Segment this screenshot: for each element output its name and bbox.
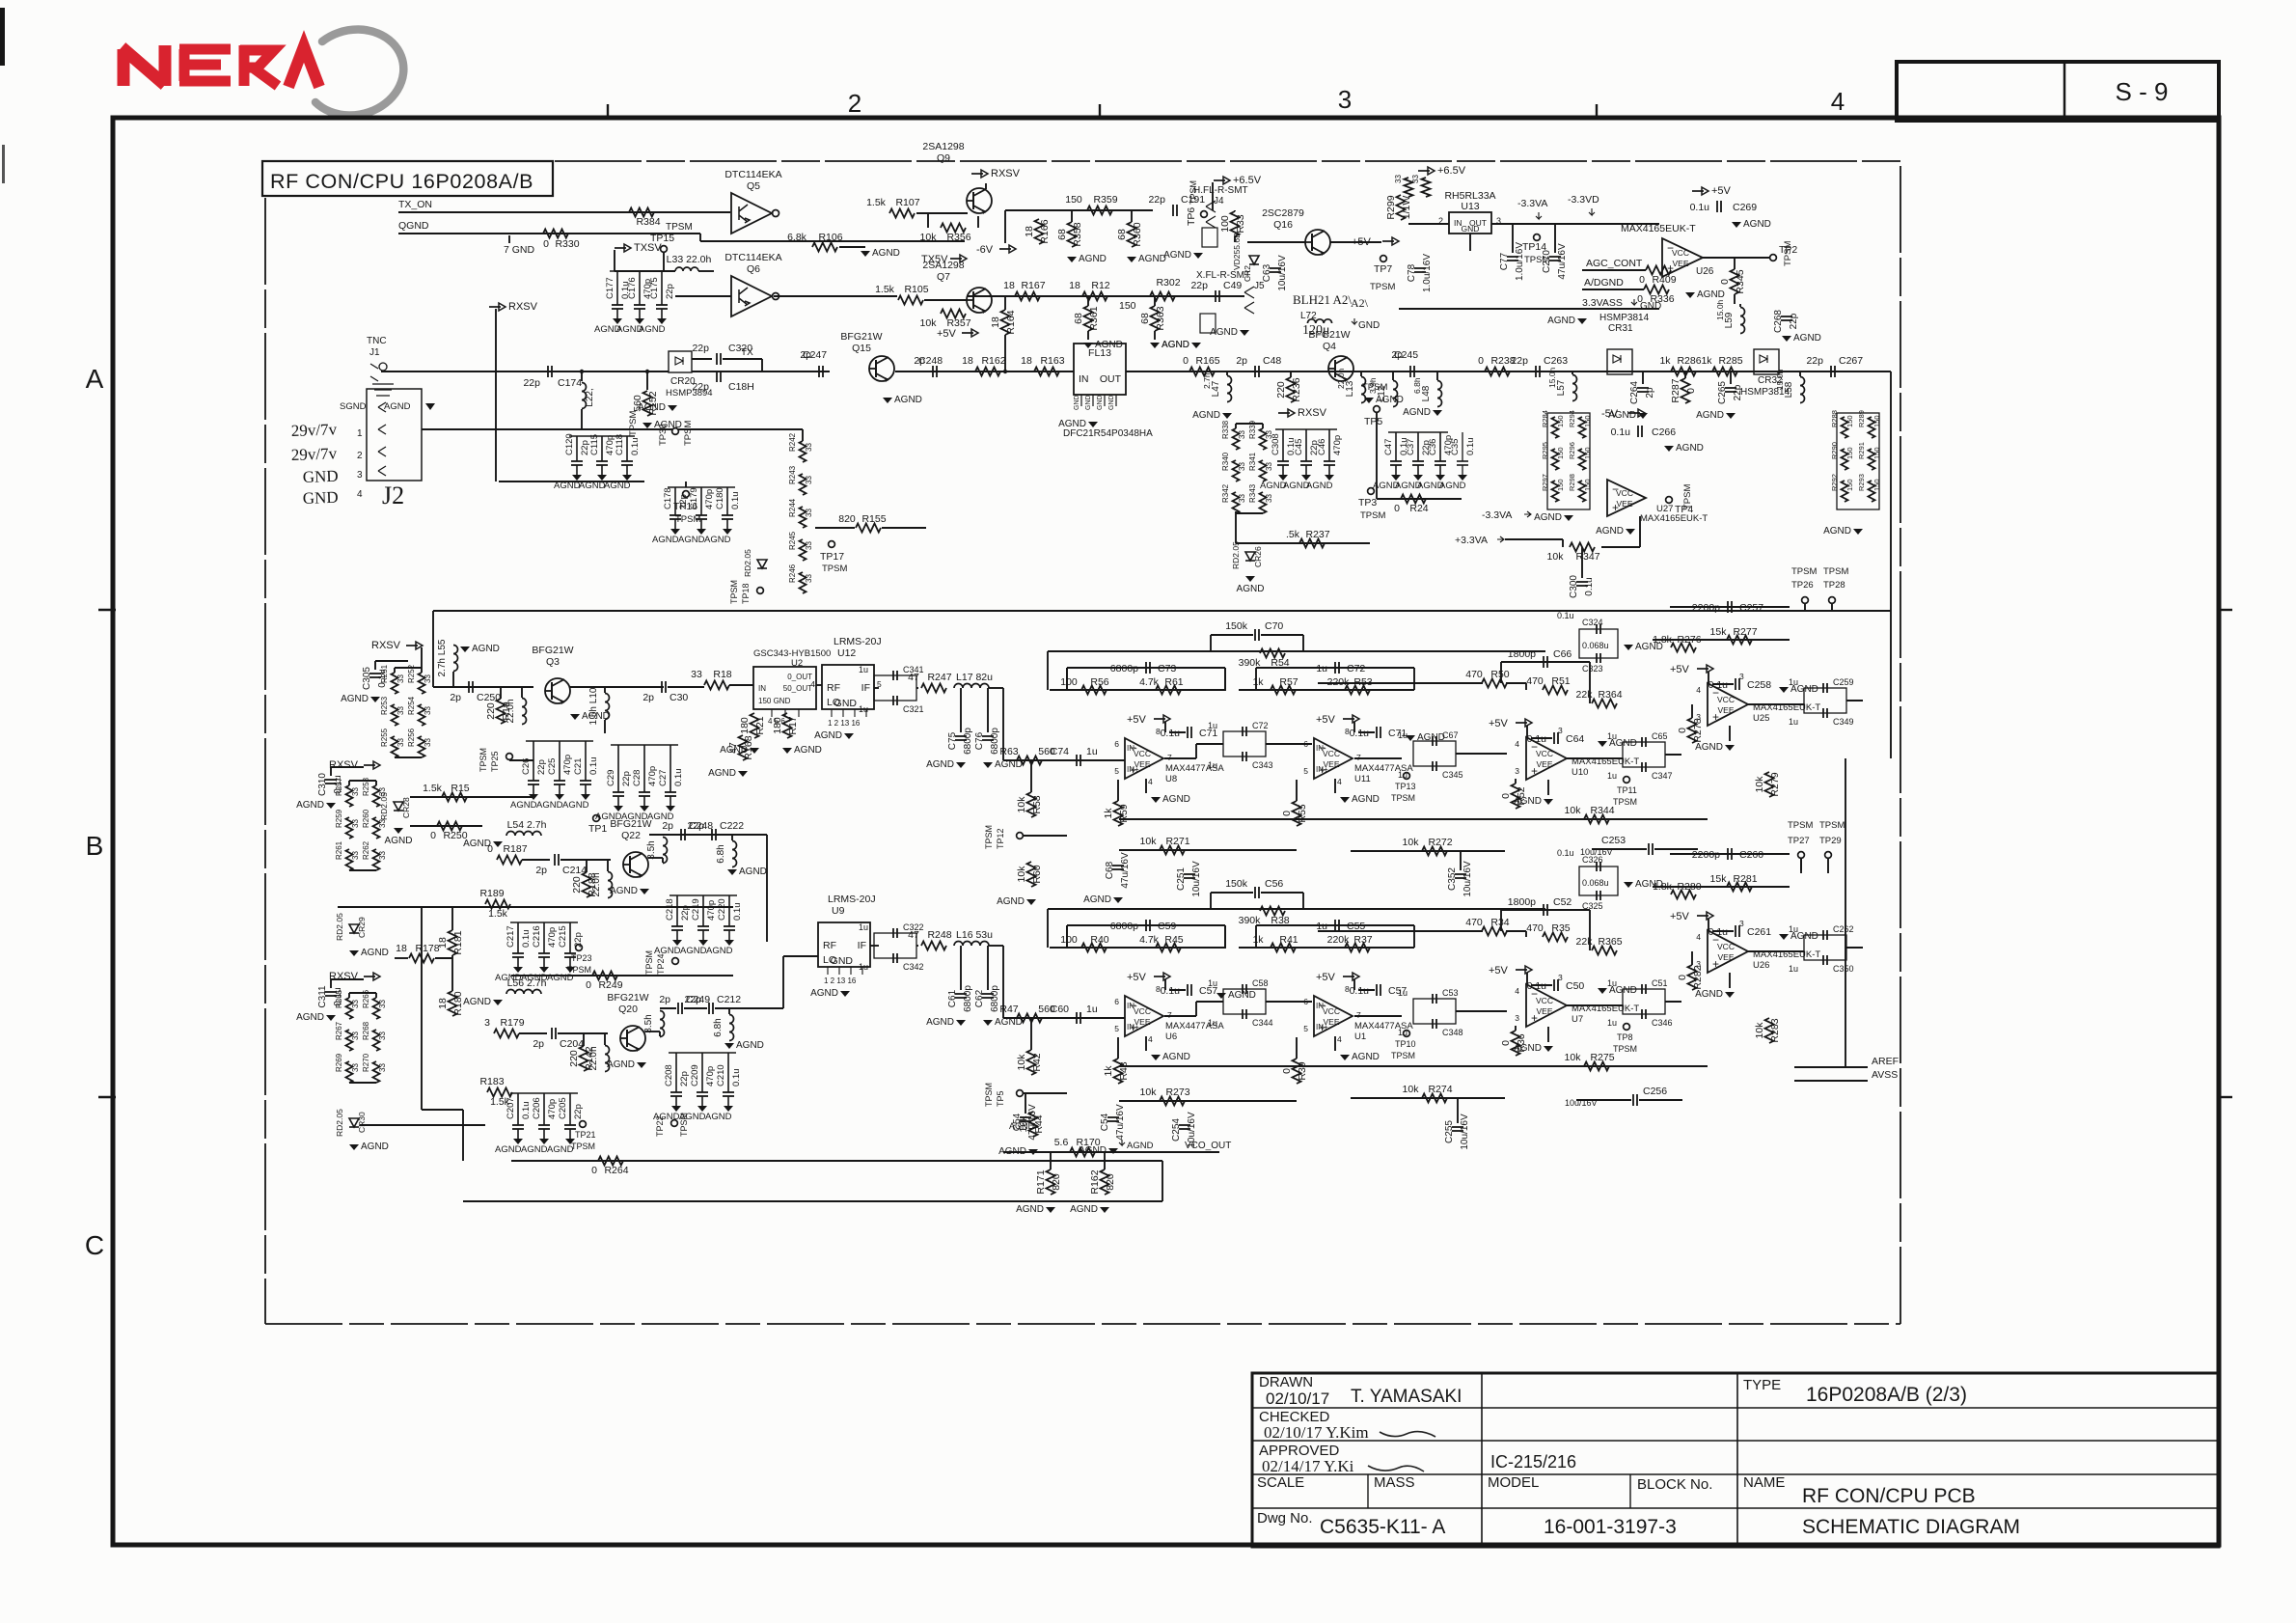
- svg-text:10k: 10k: [920, 317, 938, 329]
- svg-text:R273: R273: [1165, 1087, 1189, 1098]
- svg-text:AGND: AGND: [361, 948, 389, 958]
- resistor ladder R288-R293: [1837, 413, 1879, 509]
- svg-text:6.8h: 6.8h: [713, 1018, 724, 1036]
- power RXSV: [406, 645, 418, 646]
- capacitor C347: [1641, 762, 1643, 772]
- svg-text:R165: R165: [1195, 355, 1219, 367]
- svg-text:VEE: VEE: [1717, 705, 1734, 715]
- svg-text:C21: C21: [573, 758, 584, 775]
- wire 29v: [422, 428, 672, 430]
- svg-text:470p: 470p: [705, 1066, 716, 1087]
- wire: [1654, 848, 1698, 850]
- capacitor C52: [1501, 909, 1590, 911]
- wire: [1126, 371, 1891, 372]
- svg-text:4 5 6: 4 5 6: [768, 717, 785, 726]
- svg-text:AGND: AGND: [1743, 219, 1771, 230]
- svg-text:0.1u: 0.1u: [1557, 848, 1574, 858]
- resistor R343: [1422, 178, 1431, 197]
- svg-text:2p: 2p: [1645, 387, 1655, 399]
- ground AGND: [1544, 799, 1553, 805]
- capacitor C71: [1376, 727, 1378, 738]
- svg-text:U8: U8: [1165, 774, 1177, 784]
- test point TP13: [1404, 773, 1410, 780]
- svg-text:22p: 22p: [678, 494, 689, 509]
- svg-text:HSMP3814: HSMP3814: [1599, 313, 1650, 323]
- svg-text:150: 150: [1872, 447, 1881, 459]
- wire: [1589, 662, 1591, 703]
- svg-text:C49: C49: [1223, 280, 1242, 291]
- resistor R264: [598, 1157, 623, 1166]
- ground AGND: [983, 1020, 993, 1026]
- wire: [1131, 210, 1133, 222]
- svg-text:R237: R237: [1305, 529, 1329, 540]
- svg-text:R61: R61: [1164, 676, 1183, 688]
- svg-text:0.1u: 0.1u: [1350, 728, 1370, 739]
- svg-text:RF CON/CPU 16P0208A/B: RF CON/CPU 16P0208A/B: [270, 170, 533, 193]
- svg-text:VCC: VCC: [1717, 942, 1735, 951]
- svg-text:R60: R60: [1031, 865, 1043, 883]
- wire: [1800, 859, 1802, 870]
- test point TP17: [829, 541, 835, 548]
- svg-text:R56: R56: [1090, 676, 1108, 688]
- svg-text:1u: 1u: [859, 665, 868, 674]
- capacitor C346: [1641, 1009, 1643, 1019]
- svg-text:C219: C219: [691, 898, 701, 921]
- wire: [1005, 209, 1153, 211]
- svg-text:AREF: AREF: [1872, 1056, 1899, 1067]
- svg-text:GND: GND: [302, 488, 338, 508]
- svg-text:VCC: VCC: [1672, 248, 1689, 258]
- svg-text:6.8h: 6.8h: [716, 844, 726, 863]
- svg-text:22p: 22p: [1190, 280, 1208, 291]
- svg-text:4: 4: [1148, 777, 1153, 786]
- resistor R165: [1189, 368, 1215, 376]
- wire: [916, 687, 918, 689]
- svg-text:0: 0: [1183, 355, 1189, 367]
- svg-text:7: 7: [1167, 1010, 1172, 1020]
- wire: [463, 1200, 1162, 1202]
- capacitor C342: [892, 953, 894, 963]
- wire: [1210, 893, 1212, 909]
- svg-text:R58: R58: [1031, 795, 1043, 813]
- svg-text:R12: R12: [1091, 280, 1109, 291]
- svg-text:15.0h: 15.0h: [1775, 369, 1785, 390]
- ground AGND: [1245, 576, 1255, 582]
- resistor R254: [419, 704, 425, 726]
- svg-text:3.3VASS: 3.3VASS: [1582, 297, 1623, 309]
- wire: [1004, 210, 1006, 243]
- svg-text:0.1u: 0.1u: [730, 492, 741, 510]
- capacitor C29: [617, 745, 619, 792]
- diode CR29 RD2.05: [349, 924, 359, 933]
- svg-text:33: 33: [805, 509, 813, 517]
- svg-text:4: 4: [810, 679, 815, 689]
- svg-text:1u: 1u: [1789, 677, 1798, 687]
- svg-text:GND: GND: [1358, 320, 1380, 331]
- svg-text:10k: 10k: [1016, 796, 1027, 813]
- svg-text:U7: U7: [1572, 1014, 1583, 1025]
- svg-text:150: 150: [1583, 479, 1592, 491]
- svg-text:2p: 2p: [800, 349, 811, 361]
- svg-text:10k: 10k: [1016, 1054, 1027, 1071]
- wire: [816, 684, 822, 686]
- svg-text:TP21: TP21: [575, 1130, 596, 1140]
- power +5V: [1343, 718, 1354, 720]
- svg-text:R57: R57: [1279, 676, 1298, 688]
- wire: [699, 234, 701, 241]
- capacitor bank C120 C115 C118: [569, 435, 635, 437]
- svg-text:2.7h: 2.7h: [1202, 372, 1212, 389]
- wire: [895, 371, 1074, 372]
- svg-text:8: 8: [1345, 727, 1350, 736]
- wire: [1030, 760, 1032, 792]
- resistor R183: [487, 1088, 512, 1097]
- svg-text:0.068u: 0.068u: [1582, 878, 1609, 888]
- resistor ladder R284/R294-R298: [1547, 413, 1590, 509]
- svg-text:R359: R359: [1093, 194, 1117, 206]
- wire: [1119, 1100, 1297, 1102]
- svg-text:U6: U6: [1165, 1032, 1177, 1042]
- svg-text:GND: GND: [831, 955, 854, 967]
- resistor ladder R251-R256: [395, 667, 422, 669]
- ground AGND: [883, 398, 892, 403]
- svg-text:0.1u: 0.1u: [1161, 728, 1181, 739]
- wire: [1576, 1099, 1631, 1101]
- wire: [1318, 930, 1483, 932]
- wire: [802, 429, 804, 441]
- svg-text:AGND: AGND: [652, 535, 679, 545]
- svg-text:R296: R296: [1568, 442, 1576, 459]
- ground AGND: [1391, 475, 1401, 481]
- svg-text:J1: J1: [369, 347, 380, 358]
- svg-text:CR26: CR26: [1253, 546, 1263, 567]
- svg-text:IN+: IN+: [1127, 1023, 1139, 1032]
- wire: [495, 309, 497, 318]
- capacitor bank C177 C176 C175: [610, 270, 670, 272]
- wire: [495, 318, 497, 481]
- svg-text:150: 150: [1872, 415, 1881, 427]
- capacitor C248: [680, 829, 682, 840]
- power +5V: [1516, 969, 1527, 971]
- wire: [1469, 234, 1471, 251]
- wire: [1226, 371, 1228, 375]
- svg-text:47: 47: [908, 929, 919, 941]
- ground AGND: [349, 950, 359, 956]
- svg-text:AGND: AGND: [1352, 794, 1380, 805]
- op-amp U27: [1607, 480, 1646, 516]
- ground AGND: [666, 806, 675, 811]
- svg-text:C344: C344: [1252, 1018, 1273, 1028]
- wire: [1234, 210, 1236, 211]
- svg-text:R53: R53: [1353, 676, 1372, 688]
- svg-text:C180: C180: [715, 487, 725, 509]
- inductor L45: [663, 838, 668, 864]
- svg-text:+6.5V: +6.5V: [1233, 175, 1262, 186]
- wire: [1512, 224, 1514, 253]
- resistor R18: [704, 681, 729, 690]
- wire: [870, 945, 879, 947]
- svg-text:C300: C300: [1569, 575, 1579, 598]
- svg-text:R279: R279: [1769, 772, 1781, 796]
- svg-text:R288: R288: [1830, 410, 1839, 427]
- svg-text:R107: R107: [895, 197, 919, 208]
- svg-text:33: 33: [351, 851, 360, 860]
- ground AGND: [349, 1144, 359, 1150]
- svg-text:2: 2: [848, 89, 861, 118]
- svg-text:C264: C264: [1629, 381, 1640, 404]
- svg-text:R364: R364: [1598, 689, 1622, 701]
- resistor R280: [1671, 891, 1696, 899]
- svg-text:R345: R345: [1735, 269, 1746, 293]
- ground AGND: [635, 318, 644, 324]
- resistor R356: [941, 224, 966, 233]
- svg-text:C347: C347: [1652, 771, 1673, 781]
- resistor R15: [442, 793, 467, 802]
- svg-text:8: 8: [1345, 984, 1350, 994]
- svg-text:1u: 1u: [1208, 760, 1217, 770]
- svg-text:22p: 22p: [1148, 194, 1165, 206]
- capacitor C219: [702, 895, 704, 926]
- power RXSV: [364, 764, 375, 766]
- svg-text:R260: R260: [362, 809, 370, 828]
- svg-text:C56: C56: [1265, 878, 1283, 890]
- svg-text:R41: R41: [1279, 934, 1298, 946]
- svg-text:R272: R272: [1428, 837, 1452, 848]
- svg-text:DTC114EKA: DTC114EKA: [724, 169, 781, 180]
- svg-text:AGND: AGND: [872, 248, 900, 259]
- wire: [1794, 1080, 1868, 1082]
- svg-text:0.1u: 0.1u: [1611, 426, 1631, 438]
- svg-text:C30: C30: [670, 692, 688, 703]
- svg-text:CR2: CR2: [1243, 265, 1252, 282]
- svg-text:.5k: .5k: [1286, 529, 1300, 540]
- wire: [1266, 743, 1312, 745]
- resistor R37: [1345, 944, 1370, 952]
- capacitor C204: [551, 1028, 553, 1039]
- svg-text:18: 18: [962, 355, 973, 367]
- capacitor C75: [955, 735, 967, 737]
- svg-text:BLOCK No.: BLOCK No.: [1637, 1476, 1712, 1493]
- op-amp U6: [1125, 996, 1163, 1036]
- ground AGND: [1544, 1046, 1553, 1052]
- capacitor C61: [955, 993, 967, 995]
- svg-text:TPSM: TPSM: [729, 580, 739, 604]
- svg-text:RXSV: RXSV: [329, 971, 359, 982]
- resistor R357: [941, 310, 966, 318]
- svg-text:7: 7: [1356, 1010, 1361, 1020]
- svg-text:RF CON/CPU PCB: RF CON/CPU PCB: [1802, 1485, 1976, 1507]
- ground AGND: [671, 1106, 681, 1112]
- svg-text:6: 6: [1114, 997, 1119, 1006]
- svg-text:AGC_CONT: AGC_CONT: [1586, 258, 1643, 269]
- svg-text:+5V: +5V: [1670, 911, 1690, 922]
- capacitor C251: [1184, 873, 1195, 875]
- svg-text:R299: R299: [1385, 195, 1397, 219]
- resistor R285: [1712, 368, 1737, 376]
- wire: [1525, 931, 1527, 937]
- capacitor C248: [932, 366, 934, 377]
- resistor R47: [1017, 1014, 1042, 1023]
- ground AGND: [1150, 343, 1160, 348]
- svg-text:C36: C36: [1428, 439, 1438, 455]
- wire: [1047, 651, 1049, 690]
- svg-text:L22,: L22,: [585, 388, 595, 406]
- svg-text:10k: 10k: [1403, 1084, 1420, 1095]
- svg-text:BLH21 A⁠2⁠\: BLH21 A⁠2⁠\: [1293, 292, 1352, 307]
- svg-text:AGND: AGND: [1306, 481, 1333, 491]
- svg-text:TP6: TP6: [1186, 207, 1197, 226]
- svg-text:C18H: C18H: [728, 381, 754, 393]
- svg-text:AGND: AGND: [510, 800, 537, 811]
- svg-text:R39: R39: [1297, 1061, 1308, 1080]
- svg-text:22p: 22p: [1789, 313, 1799, 329]
- capacitor C344: [1242, 1009, 1244, 1019]
- ground AGND: [1685, 292, 1695, 298]
- svg-text:R51: R51: [1551, 675, 1570, 687]
- capacitor C321: [892, 696, 894, 705]
- svg-text:18: 18: [396, 943, 407, 954]
- wire: [1351, 1097, 1505, 1099]
- wire: [1296, 1037, 1298, 1059]
- svg-text:C77: C77: [1499, 252, 1510, 270]
- resistor R252: [419, 673, 425, 694]
- resistor R53: [1345, 686, 1370, 695]
- capacitor C216: [543, 922, 545, 953]
- svg-text:C66: C66: [1553, 648, 1572, 660]
- svg-text:180: 180: [739, 717, 751, 734]
- wire: [451, 955, 453, 991]
- op-amp U11: [1314, 738, 1353, 779]
- ground AGND: [723, 529, 732, 535]
- wire: [1224, 925, 1226, 949]
- svg-text:AGND: AGND: [1070, 1204, 1098, 1215]
- capacitor C73: [1067, 667, 1225, 669]
- svg-text:C53: C53: [1442, 988, 1459, 998]
- resistor R340: [1233, 460, 1240, 481]
- svg-text:10k: 10k: [1140, 1087, 1158, 1098]
- capacitor pair C324 C323: [1579, 629, 1618, 658]
- title block row lines: [1252, 1407, 2219, 1409]
- capacitor C206: [543, 1093, 545, 1125]
- svg-text:15.0h: 15.0h: [1547, 367, 1557, 388]
- resistor R238: [1485, 368, 1510, 376]
- wire: [570, 686, 664, 688]
- svg-text:RD2.05: RD2.05: [1231, 541, 1241, 569]
- capacitor C67: [1413, 741, 1456, 766]
- wire: [1515, 1026, 1517, 1031]
- svg-text:C46: C46: [1317, 439, 1327, 455]
- svg-text:TP10: TP10: [1395, 1039, 1416, 1049]
- wire: [1354, 757, 1402, 759]
- svg-text:C178: C178: [663, 487, 673, 509]
- transistor Q9: [967, 188, 992, 213]
- ground AGND: [1779, 934, 1789, 940]
- svg-text:C48: C48: [1263, 355, 1281, 367]
- svg-text:33: 33: [424, 738, 432, 747]
- capacitor C53: [1413, 999, 1456, 1024]
- transistor Q20: [620, 1026, 645, 1051]
- test point TP8: [1624, 1024, 1630, 1031]
- svg-text:AGND: AGND: [638, 402, 666, 413]
- ground AGND: [513, 1139, 523, 1144]
- wire: [330, 979, 332, 988]
- svg-text:33: 33: [351, 819, 360, 828]
- capacitor C191: [1172, 205, 1174, 216]
- resistor R345: [1731, 269, 1739, 294]
- svg-text:1u: 1u: [1607, 771, 1617, 781]
- wire: [1691, 704, 1693, 718]
- resistor R272: [1422, 847, 1447, 856]
- svg-text:AVSS: AVSS: [1872, 1069, 1898, 1081]
- resistor R276: [1671, 644, 1696, 652]
- resistor R298: [1579, 481, 1586, 502]
- svg-text:0: 0: [1500, 793, 1512, 799]
- resistor R36: [1512, 1031, 1520, 1056]
- svg-text:150: 150: [1583, 447, 1592, 459]
- capacitor C49: [1215, 290, 1216, 302]
- resistor R269: [346, 1061, 353, 1083]
- wire: [1354, 1015, 1402, 1017]
- svg-text:C343: C343: [1252, 760, 1273, 770]
- svg-text:R242: R242: [788, 432, 797, 452]
- resistor R342: [1233, 492, 1240, 513]
- svg-text:R287: R287: [1670, 378, 1681, 402]
- wire: [435, 957, 452, 959]
- svg-text:R277: R277: [1733, 626, 1757, 638]
- svg-text:TP3: TP3: [1358, 497, 1377, 509]
- wire: [1562, 539, 1564, 547]
- wire: [1211, 634, 1253, 636]
- svg-text:AGND: AGND: [1162, 794, 1190, 805]
- svg-text:C323: C323: [1582, 664, 1603, 674]
- wire: [1047, 909, 1049, 948]
- capacitor C256: [1632, 1094, 1634, 1106]
- svg-text:C220: C220: [717, 898, 727, 921]
- wire: [395, 957, 408, 959]
- svg-text:470p: 470p: [1332, 435, 1343, 455]
- svg-text:C258: C258: [1747, 679, 1771, 691]
- svg-text:470p: 470p: [547, 1099, 558, 1119]
- inductor R142: [605, 1046, 610, 1072]
- svg-text:AGND: AGND: [1439, 481, 1466, 491]
- wire: [499, 481, 644, 482]
- test point TP11: [1624, 777, 1630, 784]
- capacitor C215: [569, 922, 571, 953]
- svg-text:C29: C29: [606, 770, 616, 786]
- svg-text:47u/16V: 47u/16V: [1557, 243, 1568, 280]
- capacitor C68: [1112, 865, 1124, 867]
- svg-text:1u: 1u: [1398, 988, 1408, 998]
- svg-text:1u: 1u: [1316, 663, 1327, 674]
- inductor L57: [1572, 375, 1577, 401]
- svg-text:150: 150: [1556, 415, 1565, 427]
- svg-text:470: 470: [1465, 917, 1483, 928]
- svg-text:C321: C321: [903, 704, 924, 714]
- svg-text:4: 4: [357, 489, 363, 500]
- svg-text:C342: C342: [903, 962, 924, 972]
- svg-text:AGND: AGND: [680, 946, 707, 956]
- resistor R250: [437, 822, 462, 831]
- wire: [649, 834, 767, 836]
- capacitor C72: [1256, 667, 1414, 669]
- capacitor C56: [1254, 887, 1256, 898]
- svg-text:AGND: AGND: [1793, 333, 1821, 344]
- resistor R289: [1869, 417, 1875, 438]
- resistor R344: [1584, 815, 1609, 824]
- ground AGND: [1325, 475, 1334, 481]
- wire: [1003, 759, 1125, 761]
- diode CR2: [1249, 256, 1259, 264]
